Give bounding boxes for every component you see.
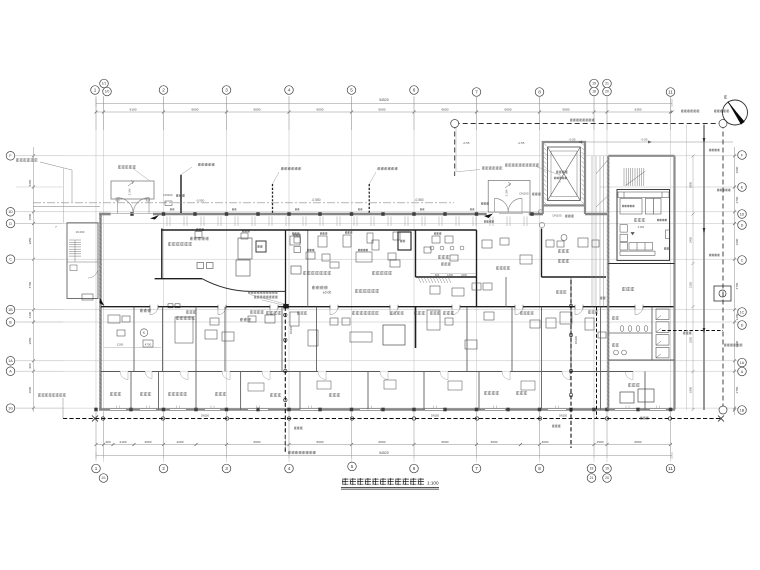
- svg-text:DN150: DN150: [559, 413, 568, 417]
- bottom wall columns: [94, 408, 672, 412]
- svg-text:20: 20: [605, 90, 609, 94]
- room label stacking zone: [516, 391, 527, 395]
- pipe vertical right wing: [596, 307, 598, 419]
- corridor door swings: [150, 307, 643, 315]
- svg-text:6: 6: [413, 88, 416, 93]
- small box on level line: [165, 201, 172, 206]
- svg-text:6: 6: [413, 466, 416, 471]
- toilet area walls: [651, 307, 653, 360]
- axis bubble D left: [6, 219, 15, 228]
- toilet sinks: [614, 350, 619, 355]
- axis bubble 1D left: [6, 208, 15, 217]
- axis bubble 1 bottom: [92, 464, 101, 473]
- axis bubble 1/1 top: [100, 79, 109, 88]
- axis bubble 6 bottom: [410, 464, 419, 473]
- main left wall hatched: [99, 214, 101, 410]
- room label test zone 2: [443, 311, 454, 315]
- boundary rotated label: [724, 344, 742, 347]
- svg-text:-0.550: -0.550: [196, 199, 205, 203]
- svg-text:300: 300: [105, 440, 110, 444]
- axis bubble C left: [6, 255, 15, 264]
- top overall dimension line 54520: [96, 103, 672, 105]
- entrance arrow 1: [150, 215, 159, 220]
- shaft wall extension to main wall: [542, 205, 544, 214]
- bottom extension lines: [96, 412, 671, 458]
- room label gas bottle 2: [140, 392, 151, 396]
- axis bubble C right: [738, 256, 747, 265]
- svg-text:-0.55: -0.55: [641, 138, 648, 142]
- axis bubble 8 bottom: [535, 464, 544, 473]
- corridor opening frames: [150, 305, 643, 309]
- small circles row generator room: [430, 246, 464, 250]
- leader text rain pipe 2: [281, 167, 301, 170]
- room label class-C workshop: [312, 286, 328, 290]
- right wing stairs: [624, 168, 644, 186]
- urinals: [620, 326, 648, 332]
- room below drying label: [556, 290, 566, 293]
- axis bubble F left: [6, 152, 15, 161]
- svg-text:3950: 3950: [28, 237, 32, 244]
- right dimension chain: [734, 147, 736, 415]
- entrance arrow 2: [100, 298, 105, 306]
- room label finished store: [176, 316, 195, 320]
- svg-text:2450: 2450: [689, 237, 693, 243]
- svg-text:1/0: 1/0: [105, 90, 110, 94]
- axis bubble 1G left: [6, 404, 15, 413]
- boxes right of wall 285.5: [294, 237, 301, 243]
- road edge gray line right: [703, 125, 705, 411]
- leader text entrance road top-right: [681, 110, 699, 113]
- svg-text:6000: 6000: [317, 107, 324, 111]
- svg-text:2: 2: [162, 466, 165, 471]
- top outer wall: [99, 213, 111, 216]
- svg-text:±0.00: ±0.00: [323, 291, 332, 295]
- svg-text:4: 4: [288, 466, 291, 471]
- floor drain circles on bottom pipe: [101, 417, 671, 420]
- svg-text:D: D: [741, 223, 744, 227]
- fire lane dashed boundary top: [455, 123, 723, 125]
- svg-text:6000: 6000: [254, 107, 261, 111]
- svg-text:6000: 6000: [317, 440, 324, 444]
- generator room hatch strip: [418, 277, 451, 283]
- horizontal axis grid lines: [15, 156, 745, 408]
- svg-text:1: 1: [95, 466, 98, 471]
- svg-text:-0.550: -0.550: [414, 198, 423, 202]
- axis bubble 5 bottom: [348, 462, 357, 471]
- svg-text:-0.55: -0.55: [569, 138, 576, 142]
- svg-text:5500: 5500: [563, 107, 570, 111]
- svg-text:3750: 3750: [735, 386, 739, 393]
- axis bubble 7 bottom: [472, 464, 481, 473]
- toilet pipe horizontal: [662, 330, 723, 332]
- canopy entrance 1: [111, 181, 154, 199]
- svg-text:1B: 1B: [8, 308, 13, 312]
- room label tool room 3: [329, 393, 340, 397]
- svg-text:6000: 6000: [635, 440, 642, 444]
- elevator shaft: [543, 142, 585, 205]
- svg-text:DN150: DN150: [201, 413, 210, 417]
- svg-text:1B: 1B: [740, 408, 745, 412]
- svg-text:1500: 1500: [597, 440, 604, 444]
- svg-text:54520: 54520: [379, 98, 389, 102]
- shaft-wing corridor verticals: [592, 156, 604, 307]
- vertical axis grid lines: [96, 97, 671, 462]
- outdoor level line: [33, 202, 454, 204]
- axis bubble E right: [738, 183, 747, 192]
- room label test zone 1: [414, 311, 425, 315]
- axis bubble 4 top: [285, 86, 294, 95]
- svg-text:18: 18: [590, 467, 594, 471]
- room label large storage: [168, 392, 187, 396]
- water tank room boxes: [620, 392, 634, 403]
- generator room extra boxes: [430, 286, 440, 294]
- band A extra equipment: [117, 316, 606, 347]
- axis bubble 1B right: [738, 406, 747, 415]
- room label heat pump zone: [190, 237, 209, 241]
- svg-text:16.000: 16.000: [76, 230, 85, 234]
- svg-text:8: 8: [538, 90, 541, 95]
- svg-text:1/1: 1/1: [102, 82, 107, 86]
- svg-text:7: 7: [475, 466, 478, 471]
- fire lane dashed boundary left stub: [454, 124, 456, 177]
- svg-text:4700: 4700: [145, 343, 152, 347]
- band A extra labels: [186, 310, 196, 313]
- svg-text:6000: 6000: [442, 440, 449, 444]
- svg-text:7: 7: [475, 90, 478, 95]
- svg-text:19: 19: [605, 467, 609, 471]
- svg-text:3000: 3000: [145, 440, 152, 444]
- rotated labels between boundary and dim: [717, 189, 731, 192]
- svg-text:21: 21: [605, 82, 609, 86]
- room label paint booth: [266, 311, 281, 315]
- svg-text:1A: 1A: [740, 361, 745, 365]
- svg-text:DN150: DN150: [431, 413, 440, 417]
- svg-text:DN100: DN100: [553, 214, 562, 218]
- bottom segment dimension line: [96, 444, 672, 446]
- svg-text:3: 3: [225, 466, 228, 471]
- svg-text:6350: 6350: [635, 107, 642, 111]
- room label drying 2: [558, 259, 569, 263]
- svg-text:2100: 2100: [120, 440, 127, 444]
- axis bubble 3 top: [222, 86, 231, 95]
- svg-text:-0.55: -0.55: [463, 141, 470, 145]
- corridor dark wall: [101, 306, 675, 308]
- thresholds at door gaps: [111, 213, 153, 215]
- svg-text:C: C: [9, 257, 12, 261]
- svg-text:DN100: DN100: [574, 335, 578, 344]
- office dark-border box: [256, 241, 266, 252]
- axis bubble 8 top: [535, 88, 544, 97]
- fire lane dashed boundary right: [722, 124, 724, 411]
- axis bubble 1A left: [6, 357, 15, 366]
- office equipment box2: [236, 260, 250, 276]
- room label production line: [355, 289, 379, 293]
- svg-text:6000: 6000: [192, 107, 199, 111]
- canopy entrance 2: [488, 181, 530, 213]
- office small box pair: [197, 263, 204, 269]
- svg-text:54520: 54520: [379, 451, 389, 455]
- annex small box: [82, 294, 93, 300]
- room label tool room 2: [270, 393, 281, 397]
- svg-text:1A: 1A: [8, 359, 13, 363]
- bottom outer wall with windows: [99, 408, 675, 411]
- light walls right hall: [505, 277, 507, 307]
- svg-text:1:100: 1:100: [427, 481, 439, 486]
- axis bubble 1B left: [6, 305, 15, 314]
- pipe vertical at x571: [570, 280, 572, 448]
- room label repair zone: [140, 309, 151, 313]
- wing ramp diagonals: [596, 160, 608, 207]
- svg-text:18: 18: [592, 90, 596, 94]
- axis bubble 1C right: [738, 308, 747, 317]
- left annex stairs: [69, 240, 81, 256]
- top segment dimension line: [96, 111, 672, 113]
- axis bubble 1 top: [91, 86, 100, 95]
- svg-text:1D: 1D: [8, 210, 13, 214]
- svg-text:1G: 1G: [8, 406, 13, 410]
- hall equipment cluster: [290, 232, 599, 290]
- svg-text:D: D: [741, 323, 744, 327]
- rain downpipes dashed: [272, 184, 274, 214]
- axis bubble 18/19 bottom: [587, 464, 596, 473]
- shot blast room label: [622, 287, 634, 291]
- svg-text:0.000: 0.000: [638, 225, 645, 229]
- laser machine big box: [383, 325, 405, 345]
- left retaining wall line: [33, 206, 100, 208]
- svg-text:4200: 4200: [177, 440, 184, 444]
- bubble stems top: [96, 96, 671, 130]
- axis bubble 3 bottom: [222, 464, 231, 473]
- wall x307.8: [307, 230, 309, 307]
- svg-text:5: 5: [350, 88, 353, 93]
- room label material zone: [484, 391, 499, 395]
- svg-text:1200: 1200: [28, 311, 32, 318]
- sewer pipe vertical at grid 4: [284, 307, 286, 452]
- svg-text:5: 5: [351, 464, 354, 469]
- svg-text:3.3%: 3.3%: [505, 189, 509, 196]
- svg-text:900: 900: [28, 363, 32, 368]
- tool room small boxes: [248, 380, 535, 391]
- svg-text:DN100: DN100: [289, 325, 293, 334]
- axis bubble 1A right: [738, 358, 747, 367]
- svg-text:2150: 2150: [689, 282, 693, 288]
- svg-text:1200: 1200: [117, 343, 124, 347]
- svg-text:3.3%: 3.3%: [128, 188, 132, 195]
- small boxes on corridor wall: [168, 304, 173, 308]
- axis bubble D right: [738, 221, 747, 230]
- svg-text:1900: 1900: [689, 387, 693, 393]
- office area curve wall: [202, 279, 286, 292]
- axis bubble D right: [738, 321, 747, 330]
- leader text sewer out left: [38, 393, 66, 396]
- leader text rain pipe 1: [118, 165, 136, 168]
- fire lane corner bubble right: [719, 120, 727, 128]
- svg-text:1C: 1C: [740, 310, 745, 314]
- entrance arrow canopy2: [484, 214, 493, 219]
- mid lower wall: [101, 371, 633, 373]
- small circles near shaft wall: [538, 210, 542, 214]
- axis bubble A right: [738, 367, 747, 376]
- left annex door arc: [88, 268, 98, 278]
- svg-text:4: 4: [288, 88, 291, 93]
- sewer pipe bottom horizontal: [63, 418, 722, 420]
- window tags above top wall: [170, 208, 174, 210]
- rain downpipe solid at x181: [180, 175, 182, 213]
- top wall columns: [130, 212, 533, 216]
- axis bubble 4 bottom: [285, 464, 294, 473]
- battery room dark box: [398, 232, 411, 250]
- hall equipment labels tiny: [292, 232, 299, 234]
- toilet stalls: [656, 309, 669, 358]
- bottom overall dimension line 54520: [96, 455, 672, 457]
- svg-text:4700: 4700: [735, 282, 739, 289]
- svg-text:3000: 3000: [491, 440, 498, 444]
- svg-text:2: 2: [162, 88, 165, 93]
- electrical room equipment: [618, 192, 670, 255]
- leader text to municipal sewer bottom: [288, 451, 316, 454]
- axis bubble F right: [738, 151, 747, 160]
- svg-text:-0.550: -0.550: [311, 198, 320, 202]
- right wing outer walls: [608, 155, 674, 157]
- svg-text:2700: 2700: [735, 196, 739, 203]
- room label laser welding zone: [352, 311, 379, 315]
- electrical room walls: [617, 190, 670, 261]
- svg-text:3000: 3000: [542, 440, 549, 444]
- svg-text:DN100: DN100: [520, 192, 529, 196]
- svg-text:DN100: DN100: [164, 193, 173, 197]
- svg-text:3050: 3050: [28, 337, 32, 344]
- X mark right bottom pipe: [718, 416, 724, 422]
- axis bubble 11 top: [666, 88, 675, 97]
- leader two-line text drainage wall: [248, 291, 278, 294]
- office tiny cabinets: [195, 232, 202, 238]
- svg-text:3: 3: [225, 88, 228, 93]
- svg-text:8: 8: [538, 466, 541, 471]
- axis bubble 2 top: [159, 86, 168, 95]
- svg-text:3000: 3000: [735, 166, 739, 173]
- room label gas bottle 1: [110, 392, 121, 396]
- axis bubble 20/21 top: [603, 79, 612, 88]
- svg-text:6000: 6000: [379, 440, 386, 444]
- room label generator: [438, 255, 449, 259]
- pipe junction X mark: [92, 416, 98, 422]
- svg-text:D: D: [9, 222, 12, 226]
- fire lane corner bubble left: [451, 120, 459, 128]
- axis bubble 1D right: [738, 210, 747, 219]
- window mullion ticks under top wall: [167, 217, 527, 227]
- canopy2 leader texts: [482, 166, 502, 169]
- svg-text:6000: 6000: [379, 107, 386, 111]
- room label battery swap zone: [303, 271, 331, 275]
- circle symbol in hall right: [561, 235, 567, 241]
- room label tool room 1: [215, 392, 226, 396]
- svg-text:-0.55: -0.55: [518, 141, 525, 145]
- mid wall door swings: [120, 372, 633, 380]
- axis bubble 11 bottom: [666, 464, 675, 473]
- svg-text:11: 11: [668, 90, 673, 95]
- rain text leader mid: [198, 163, 215, 166]
- dim chain right of wing: [692, 156, 694, 410]
- office block dark walls: [155, 229, 606, 307]
- room label washing zone: [240, 318, 251, 322]
- leader text water supply top-left: [16, 158, 38, 161]
- room label drying 1: [558, 249, 569, 253]
- svg-text:6000: 6000: [254, 440, 261, 444]
- fire lane corner bubble bottom: [719, 406, 727, 414]
- left dimension chain: [33, 147, 35, 412]
- svg-text:1D: 1D: [740, 212, 745, 216]
- title underline: [341, 487, 439, 489]
- svg-text:4700: 4700: [28, 281, 32, 288]
- axis bubble 2 bottom: [159, 464, 168, 473]
- svg-text:21: 21: [590, 476, 594, 480]
- svg-text:6000: 6000: [442, 107, 449, 111]
- svg-text:6000: 6000: [505, 107, 512, 111]
- axis bubble B left: [6, 318, 15, 327]
- axis bubble 6 top: [410, 86, 419, 95]
- hall extra equipment: [330, 238, 532, 268]
- svg-text:3250: 3250: [689, 337, 693, 343]
- window mullions bottom wall: [117, 406, 660, 410]
- svg-text:1/1: 1/1: [101, 476, 106, 480]
- room label mobile welding zone: [372, 271, 392, 275]
- title text: [342, 478, 424, 485]
- pipe name tags: [294, 427, 303, 430]
- svg-text:3600: 3600: [735, 238, 739, 245]
- svg-text:C: C: [741, 258, 744, 262]
- upper-lower band room divider walls: [134, 307, 601, 372]
- axis bubble 18/19 top: [590, 79, 599, 88]
- light vertical line 686.5: [686, 125, 688, 411]
- wall at grid4 area x285.5: [285, 230, 287, 307]
- svg-text:5250: 5250: [28, 179, 32, 186]
- level annotation line top right: [545, 141, 733, 143]
- svg-text:11: 11: [668, 466, 673, 471]
- axis bubble 7 top: [472, 88, 481, 97]
- hydrant blob at corridor: [284, 304, 289, 308]
- axis bubble 5 top: [347, 86, 356, 95]
- lower band equipment: [108, 310, 572, 349]
- floor drain circles on vertical pipes: [284, 304, 573, 401]
- annex divider and box: [67, 261, 98, 263]
- axis bubble 1/1 bottom: [99, 474, 108, 483]
- annex extension line up: [63, 168, 65, 223]
- store room label: [496, 266, 510, 269]
- axis bubble A left: [6, 367, 15, 376]
- north arrow: [723, 100, 748, 125]
- svg-text:2900: 2900: [689, 182, 693, 188]
- svg-text:1: 1: [94, 88, 97, 93]
- svg-text:19: 19: [592, 82, 596, 86]
- office tall equipment rect: [238, 238, 252, 259]
- left annex outer walls: [67, 223, 98, 299]
- lower band room divider walls: [131, 372, 645, 410]
- svg-text:20: 20: [605, 476, 609, 480]
- svg-text:3000: 3000: [28, 386, 32, 393]
- axis bubble 20 bottom: [603, 464, 612, 473]
- room label paint office: [168, 242, 192, 246]
- svg-text:1500: 1500: [28, 213, 32, 220]
- equipment on boundary line: [714, 286, 731, 301]
- leader text rain pipe 3: [378, 167, 398, 170]
- svg-text:9100: 9100: [130, 107, 137, 111]
